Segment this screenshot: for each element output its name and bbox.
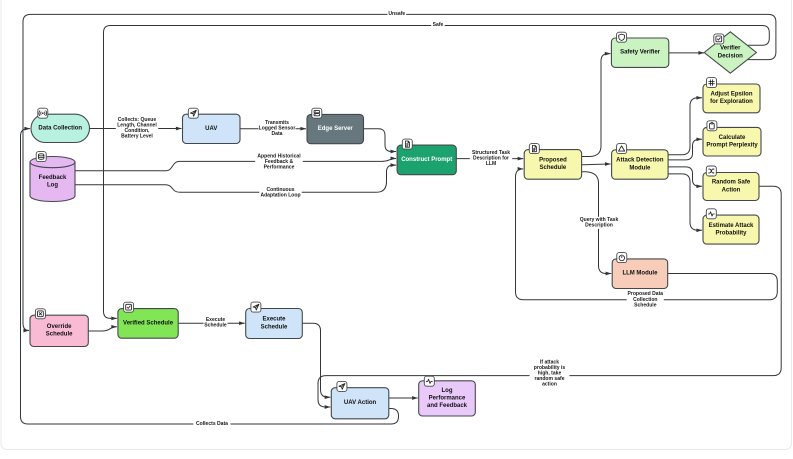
wire Data Collection to UAV <box>90 128 182 130</box>
edge label Execute Schedule <box>204 317 228 329</box>
icon badge for Data Collection <box>38 108 48 118</box>
node Estimate Attack Probability <box>703 215 759 244</box>
edge label Append Historical Feedback & Performance <box>255 153 303 171</box>
edge label Unsafe <box>387 11 406 18</box>
wire Attack Detection to Calculate Perplexity <box>668 139 702 160</box>
node Verified Schedule <box>118 309 178 339</box>
svg-text:Verified Schedule: Verified Schedule <box>123 320 174 326</box>
svg-text:Schedule: Schedule <box>46 332 73 338</box>
edge label If attack probability is high, take random safe action <box>530 359 570 388</box>
wire Feedback Log to Construct Prompt (append) <box>75 158 396 170</box>
icon badge for Attack Detection Module <box>617 144 627 154</box>
wire Attack Detection to Random Safe Action <box>668 167 702 186</box>
icon badge for Proposed Schedule <box>529 144 539 154</box>
node Random Safe Action <box>703 173 759 201</box>
edge label Query with Task Description <box>578 217 620 229</box>
svg-text:Unsafe: Unsafe <box>388 11 405 17</box>
svg-text:Edge Server: Edge Server <box>318 126 354 132</box>
svg-text:UAV Action: UAV Action <box>344 400 377 406</box>
svg-text:Estimate Attack: Estimate Attack <box>709 223 754 229</box>
wire Feedback Log to Construct Prompt (loop) <box>75 165 396 192</box>
node Override Schedule <box>30 315 88 346</box>
svg-text:Prompt Perplexity: Prompt Perplexity <box>706 143 758 149</box>
svg-text:action: action <box>542 382 557 388</box>
svg-text:Probability: Probability <box>715 230 747 236</box>
node Safety Verifier <box>611 38 668 67</box>
svg-text:Battery Level: Battery Level <box>121 134 153 140</box>
icon badge for UAV Action <box>337 381 347 391</box>
icon badge for Safety Verifier <box>617 32 627 42</box>
svg-text:UAV: UAV <box>205 126 217 132</box>
wire LLM Module to Proposed Schedule (feedback) <box>516 169 778 300</box>
node UAV <box>183 114 241 143</box>
node Attack Detection Module <box>612 150 669 179</box>
svg-text:Proposed: Proposed <box>539 158 567 164</box>
edge label Collects: Queue Length, Channel Condition, Battery Level <box>116 117 158 140</box>
svg-text:Schedule: Schedule <box>261 324 288 330</box>
icon badge for Estimate Attack Probability <box>706 209 716 219</box>
svg-text:Verifier: Verifier <box>720 46 741 52</box>
node Construct Prompt <box>397 145 456 175</box>
svg-text:Safety Verifier: Safety Verifier <box>620 50 661 56</box>
icon badge for Verifier Decision <box>714 34 724 44</box>
icon badge for Override Schedule <box>35 309 45 319</box>
wire Override Schedule to Verified Schedule <box>88 327 117 331</box>
wire Execute Schedule to UAV Action <box>302 323 330 397</box>
node LLM Module <box>612 259 668 289</box>
svg-text:Schedule: Schedule <box>634 302 657 308</box>
svg-text:Override: Override <box>47 324 72 330</box>
svg-text:for Exploration: for Exploration <box>710 99 753 105</box>
svg-text:Action: Action <box>722 187 741 193</box>
node Feedback Log <box>30 157 75 202</box>
svg-text:Construct Prompt: Construct Prompt <box>401 157 452 163</box>
svg-text:Module: Module <box>629 165 651 171</box>
wire Proposed Schedule to LLM Module (query) <box>582 172 612 274</box>
wire Proposed Schedule to Safety Verifier <box>582 54 611 157</box>
icon badge for Calculate Prompt Perplexity <box>707 121 717 131</box>
node Proposed Schedule <box>524 150 581 180</box>
wire Construct Prompt to Proposed Schedule <box>456 158 523 160</box>
svg-text:Schedule: Schedule <box>204 323 227 329</box>
svg-text:Schedule: Schedule <box>540 165 567 171</box>
wire Attack Detection to Adjust Epsilon <box>668 98 702 155</box>
svg-text:Log: Log <box>442 388 453 394</box>
wire Verified Schedule to Execute Schedule <box>178 322 245 324</box>
wire Edge Server to Construct Prompt <box>364 129 397 152</box>
edge label Continuous Adaptation Loop <box>259 187 301 199</box>
icon badge for Verified Schedule <box>124 302 134 312</box>
svg-text:and Feedback: and Feedback <box>427 403 468 409</box>
icon badge for Adjust Epsilon for Exploration <box>707 78 717 88</box>
wire UAV to Edge Server <box>240 128 306 130</box>
svg-text:Data: Data <box>272 131 283 137</box>
node Edge Server <box>307 114 364 143</box>
icon badge for Edge Server <box>312 108 322 118</box>
svg-text:Performance: Performance <box>429 395 466 401</box>
icon badge for Log Performance and Feedback <box>424 376 434 386</box>
icon badge for LLM Module <box>617 253 627 263</box>
node Data Collection <box>31 114 90 142</box>
svg-text:Adjust Epsilon: Adjust Epsilon <box>711 92 753 98</box>
svg-text:Execute: Execute <box>262 317 286 323</box>
node Verifier Decision <box>704 32 756 73</box>
svg-text:Adaptation Loop: Adaptation Loop <box>260 193 300 199</box>
icon badge for Random Safe Action <box>706 166 716 176</box>
icon badge for Feedback Log <box>36 152 46 162</box>
edge label Structured Task Description for LLM <box>470 150 512 168</box>
svg-text:Decision: Decision <box>718 53 743 59</box>
svg-text:Feedback: Feedback <box>39 175 67 181</box>
node Adjust Epsilon for Exploration <box>703 84 760 113</box>
wire UAV Action to Data Collection (collects data) <box>21 129 399 424</box>
icon badge for Execute Schedule <box>251 302 261 312</box>
wire Verifier Decision to Override Schedule (Unsafe) <box>23 14 776 330</box>
svg-text:Safe: Safe <box>433 22 444 28</box>
wire Verifier Decision to Verified Schedule (Safe) <box>104 26 770 319</box>
edge label Collects Data <box>193 421 230 428</box>
edge label Safe <box>431 22 445 29</box>
icon badge for UAV <box>188 108 198 118</box>
node Calculate Prompt Perplexity <box>703 127 761 156</box>
wire UAV Action to Log Performance <box>389 397 418 399</box>
svg-text:Log: Log <box>47 183 58 189</box>
svg-text:LLM: LLM <box>486 161 496 167</box>
edge label Proposed Data Collection Schedule <box>627 291 664 309</box>
wire Proposed Schedule to Attack Detection <box>582 163 611 166</box>
svg-text:Random Safe: Random Safe <box>712 180 751 186</box>
svg-text:Attack Detection: Attack Detection <box>616 158 664 164</box>
node UAV Action <box>331 388 389 419</box>
edge label Transmits Logged Sensor Data <box>258 120 295 138</box>
svg-text:LLM Module: LLM Module <box>622 271 658 277</box>
svg-text:Collects Data: Collects Data <box>196 421 228 427</box>
wire Attack Detection to Estimate Attack Probability <box>668 174 702 230</box>
icon badge for Construct Prompt <box>402 139 412 149</box>
svg-text:Calculate: Calculate <box>719 135 746 141</box>
svg-text:Description: Description <box>585 223 613 229</box>
node Execute Schedule <box>246 309 303 339</box>
node Log Performance and Feedback <box>419 381 476 416</box>
svg-text:Data Collection: Data Collection <box>38 125 82 131</box>
wire Safety Verifier to Verifier Decision <box>669 52 704 54</box>
wire Random Safe Action to UAV Action (if attack) <box>318 186 781 407</box>
svg-text:Performance: Performance <box>264 165 295 171</box>
